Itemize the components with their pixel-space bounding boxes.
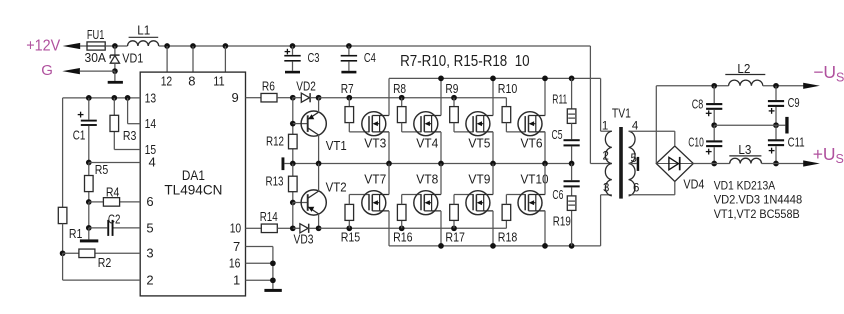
node mid/C8 xyxy=(711,122,717,128)
wire -Us rail xyxy=(656,85,728,87)
svg-text:VT9: VT9 xyxy=(468,173,490,187)
node gate line R15 xyxy=(346,225,352,231)
resistor R17 xyxy=(453,220,455,228)
wire VT2 base lead xyxy=(293,202,308,204)
capacitor C8 xyxy=(713,86,715,103)
wire pin4 corner down to VD4 top xyxy=(674,131,676,146)
svg-text:12: 12 xyxy=(161,73,173,88)
resistor R1 xyxy=(58,207,67,223)
wire pin 4 line xyxy=(89,162,140,164)
wire R6 to VD2 xyxy=(277,97,293,99)
node pin12 stub xyxy=(164,43,170,49)
op-amp IC DA1 TL494CN box xyxy=(140,72,245,296)
wire gate line lower row xyxy=(319,227,507,229)
node R1/R2/pin3 xyxy=(60,250,66,256)
capacitor C5 xyxy=(571,123,573,139)
node VT2 base / R13 xyxy=(290,200,296,206)
node VT1 base / R12 xyxy=(290,121,296,127)
ground below VD1 xyxy=(108,81,123,84)
wire middle bus xyxy=(284,163,571,165)
transistor VT7 (MOSFET) xyxy=(362,191,386,215)
wire VT7 source vertical to lower bus xyxy=(388,211,390,246)
svg-text:R8: R8 xyxy=(393,82,406,96)
wire gate line upper row xyxy=(319,97,507,99)
wire VT10 drain vertical to bus xyxy=(544,164,546,195)
resistor R18 xyxy=(505,220,507,228)
wire VT1 collector to bus xyxy=(318,135,320,164)
resistor R12 xyxy=(292,149,294,164)
svg-text:R12: R12 xyxy=(266,135,284,149)
wire pin 16 line xyxy=(246,262,273,264)
node bus/C5/C6 xyxy=(569,161,575,167)
wire R9 to gate of VT5 xyxy=(453,123,455,132)
wire R16 to gate of VT8 xyxy=(401,195,403,205)
svg-text:R14: R14 xyxy=(260,210,278,224)
node VD2 anode / VT1 base branch xyxy=(290,95,296,101)
wire drain line to TV1 pin 1 xyxy=(600,78,602,131)
wire VT8 source vertical to lower bus xyxy=(440,211,442,246)
wire pin6 corner up to VD4 bottom xyxy=(674,182,676,195)
node VD2 cathode / VT1 emitter xyxy=(316,95,322,101)
terminal arrow G xyxy=(62,68,80,74)
wire stub pin 11 xyxy=(224,46,226,72)
wire VT5 drain vertical xyxy=(492,78,494,115)
svg-text:R6: R6 xyxy=(262,79,275,93)
node gate line R17 xyxy=(451,225,457,231)
node bus column 2 xyxy=(438,161,444,167)
wire pin 10 line xyxy=(246,227,262,229)
wire VT6 source vertical xyxy=(544,132,546,164)
svg-text:2: 2 xyxy=(146,273,153,288)
svg-text:VT4: VT4 xyxy=(416,137,438,151)
svg-text:R19: R19 xyxy=(553,215,571,229)
wire TV1 pin 4 lead xyxy=(629,130,675,132)
svg-text:VD2.VD3 1N4448: VD2.VD3 1N4448 xyxy=(714,193,803,207)
svg-text:R5: R5 xyxy=(95,163,109,177)
wire VT2 emitter to pin10 line xyxy=(318,214,320,228)
svg-text:VT1,VT2 BC558B: VT1,VT2 BC558B xyxy=(714,207,800,221)
wire VT1 emitter to VD2 cathode xyxy=(318,98,320,113)
wire VT2 collector to bus xyxy=(318,164,320,192)
node pin13/pin14 branch xyxy=(125,95,131,101)
wire R17 to gate of VT9 xyxy=(453,195,455,205)
svg-text:2: 2 xyxy=(603,151,609,163)
ground bar at TV1 pin 5 xyxy=(637,157,640,171)
svg-text:C1: C1 xyxy=(73,129,86,143)
svg-text:+12V: +12V xyxy=(26,38,61,55)
resistor R19 xyxy=(571,210,573,246)
node R5/R4/pin6 xyxy=(86,199,92,205)
svg-text:16: 16 xyxy=(229,256,241,271)
svg-text:C3: C3 xyxy=(308,51,320,65)
svg-text:VT10: VT10 xyxy=(521,173,549,187)
wire VT1 base lead xyxy=(293,123,308,125)
capacitor C3 xyxy=(292,46,294,55)
svg-text:R1: R1 xyxy=(69,227,83,241)
node gate line R16 xyxy=(399,225,405,231)
svg-text:VT3: VT3 xyxy=(364,137,386,151)
node gate line R9 xyxy=(451,95,457,101)
svg-text:VD1 KD213A: VD1 KD213A xyxy=(714,178,776,192)
diode VD2 xyxy=(293,97,302,99)
capacitor C10 xyxy=(713,125,715,140)
bridge inner diode xyxy=(658,163,693,165)
svg-text:TV1: TV1 xyxy=(612,107,631,121)
wire VT9 source vertical to lower bus xyxy=(492,211,494,246)
diode VD3 xyxy=(293,227,300,229)
transformer secondary winding xyxy=(629,131,635,196)
svg-text:R11: R11 xyxy=(552,93,567,107)
transistor VT5 (MOSFET) xyxy=(466,112,490,136)
node -Us/C8 xyxy=(711,83,717,89)
wire TV1 pin 3 to lower bus xyxy=(601,194,612,196)
wire pin 9 line xyxy=(246,97,262,99)
node bus/R12 xyxy=(290,161,296,167)
svg-text:10: 10 xyxy=(230,221,242,236)
wire R3 to pin 15 xyxy=(114,149,140,151)
node drain/VT6 xyxy=(542,76,548,82)
node lower bus/VT9 xyxy=(490,243,496,249)
capacitor C11 xyxy=(775,125,777,139)
wire left chain down from pin13 line xyxy=(62,98,64,207)
svg-text:5: 5 xyxy=(146,220,153,235)
svg-text:1: 1 xyxy=(602,121,608,133)
svg-text:14: 14 xyxy=(145,116,157,131)
svg-text:VD3: VD3 xyxy=(294,232,314,246)
wire pin 1 line xyxy=(246,279,273,281)
node rail/C3 xyxy=(290,43,296,49)
resistor R14 xyxy=(261,224,277,233)
node +Us/C11 xyxy=(773,161,779,167)
node C2/ground xyxy=(86,225,92,231)
svg-text:13: 13 xyxy=(145,90,157,105)
svg-text:R4: R4 xyxy=(106,185,120,199)
svg-text:6: 6 xyxy=(633,182,639,194)
svg-text:R13: R13 xyxy=(266,175,284,189)
svg-text:VT1: VT1 xyxy=(326,139,347,153)
svg-text:VT7: VT7 xyxy=(364,173,386,187)
node VD3 anode / VT2 base branch xyxy=(290,225,296,231)
svg-text:1: 1 xyxy=(233,273,240,288)
resistor R7 xyxy=(348,98,350,107)
capacitor C2 xyxy=(89,227,108,229)
wire TV1 pin 5 lead xyxy=(629,163,637,165)
wire VT4 drain vertical xyxy=(440,78,442,115)
svg-text:11: 11 xyxy=(213,73,225,88)
svg-text:C4: C4 xyxy=(364,51,376,65)
wire C1 to pin4 node xyxy=(88,126,90,163)
node gate line R7 xyxy=(346,95,352,101)
wire VT2 base vertical to VD3 xyxy=(292,203,294,229)
svg-text:TL494CN: TL494CN xyxy=(164,182,222,198)
node drain/VT5 xyxy=(490,76,496,82)
ground below C3 xyxy=(285,71,300,74)
node bus column 1 xyxy=(386,161,392,167)
node lower bus/R19 xyxy=(569,243,575,249)
node pin1 join xyxy=(270,277,276,283)
resistor R5 xyxy=(88,163,90,176)
wire VT1 base vertical xyxy=(292,98,294,135)
wire +12V drop to TV1 pin 2 xyxy=(589,46,591,164)
node VD1/G line xyxy=(112,68,118,74)
resistor R13 xyxy=(292,164,294,177)
transistor VT4 (MOSFET) xyxy=(414,112,438,136)
wire branch to pin 14 xyxy=(127,98,129,124)
ground bar mid right xyxy=(785,117,788,134)
svg-text:R9: R9 xyxy=(445,82,458,96)
svg-text:G: G xyxy=(41,62,53,79)
node +Us/C10 xyxy=(711,161,717,167)
transistor VT2 xyxy=(301,190,326,215)
node pin11 stub xyxy=(223,43,229,49)
wire R18 to gate of VT10 xyxy=(505,195,507,205)
wire pin 7 line xyxy=(246,246,273,248)
svg-text:C5: C5 xyxy=(552,128,563,142)
node drain/VT4 xyxy=(438,76,444,82)
node pin4/C1/R5 xyxy=(86,160,92,166)
resistor R11 xyxy=(571,78,573,109)
svg-text:6: 6 xyxy=(146,194,153,209)
resistor R9 xyxy=(453,98,455,107)
wire G line xyxy=(80,70,115,72)
wire VD1 to ground xyxy=(114,71,116,81)
resistor R10 xyxy=(505,98,507,107)
svg-text:R17: R17 xyxy=(445,231,465,245)
svg-text:4: 4 xyxy=(149,155,156,170)
svg-text:3: 3 xyxy=(146,246,153,261)
zener diode VD1 xyxy=(114,46,116,55)
svg-text:C2: C2 xyxy=(108,212,121,226)
svg-text:9: 9 xyxy=(232,90,239,105)
capacitor C6 xyxy=(571,164,573,181)
wire VT6 drain vertical xyxy=(544,78,546,115)
svg-text:R2: R2 xyxy=(98,256,112,270)
ground bar left end of bus xyxy=(282,157,285,170)
wire +Us rail from VD4 xyxy=(693,163,729,165)
svg-text:C8: C8 xyxy=(692,98,704,112)
svg-text:R7: R7 xyxy=(341,82,354,96)
wire pin 13 line xyxy=(63,97,141,99)
wire R10 to gate of VT6 xyxy=(505,123,507,132)
wire VT10 source vertical to lower bus xyxy=(544,211,546,246)
wire mid ground line xyxy=(714,124,785,126)
wire R7 to gate of VT3 xyxy=(348,123,350,132)
terminal arrow -Us xyxy=(803,83,820,89)
svg-text:VD1: VD1 xyxy=(122,51,143,65)
ground below C4 xyxy=(341,71,356,74)
wire VT9 drain vertical to bus xyxy=(492,164,494,195)
node drain/R11 xyxy=(569,76,575,82)
svg-text:R3: R3 xyxy=(123,129,137,143)
svg-text:VT5: VT5 xyxy=(468,137,490,151)
wire VT4 source vertical xyxy=(440,132,442,164)
node rail/C4 xyxy=(346,43,352,49)
wire arrow to FU1 xyxy=(80,45,87,47)
svg-text:C9: C9 xyxy=(788,96,800,110)
capacitor C4 xyxy=(348,46,350,55)
node pin13/C1 xyxy=(86,95,92,101)
node -Us/C9 xyxy=(773,83,779,89)
wire FU1 to L1 xyxy=(105,45,127,47)
wire upper drain line xyxy=(389,77,601,79)
wire R8 to gate of VT4 xyxy=(401,123,403,132)
wire VT8 drain vertical to bus xyxy=(440,164,442,195)
svg-text:C10: C10 xyxy=(688,136,704,150)
svg-text:L1: L1 xyxy=(137,22,150,37)
resistor R6 xyxy=(261,93,277,102)
wire down to pin2 line xyxy=(62,253,64,280)
svg-text:L2: L2 xyxy=(737,61,750,76)
node bus column 3 xyxy=(490,161,496,167)
svg-text:VD4: VD4 xyxy=(683,178,704,192)
fuse FU1 xyxy=(87,42,105,50)
node rail/VD1 xyxy=(112,43,118,49)
node pin16 join xyxy=(270,260,276,266)
terminal arrow +12V xyxy=(63,43,81,49)
transistor VT6 (MOSFET) xyxy=(518,112,542,136)
node pin8 stub xyxy=(190,43,196,49)
transistor VT1 xyxy=(301,111,326,136)
svg-text:30A: 30A xyxy=(85,51,107,65)
svg-text:L3: L3 xyxy=(738,142,751,157)
wire lower bus xyxy=(389,245,601,247)
transistor VT9 (MOSFET) xyxy=(466,191,490,215)
svg-text:8: 8 xyxy=(188,73,195,88)
wire pins 7-16-1 vertical xyxy=(272,247,274,289)
svg-text:3: 3 xyxy=(603,182,609,194)
resistor R8 xyxy=(401,98,403,107)
wire VD4 left corner up to -Us rail xyxy=(655,86,657,164)
svg-text:VT6: VT6 xyxy=(521,137,543,151)
wire pin 2 line xyxy=(63,279,141,281)
svg-text:VT8: VT8 xyxy=(416,173,438,187)
resistor R2 xyxy=(63,252,79,254)
svg-text:C11: C11 xyxy=(788,135,805,149)
svg-text:FU1: FU1 xyxy=(87,28,105,42)
wire VT3 source vertical xyxy=(388,132,390,164)
svg-text:R10: R10 xyxy=(498,82,518,96)
wire R15 to gate of VT7 xyxy=(348,195,350,205)
svg-text:R16: R16 xyxy=(393,231,413,245)
svg-text:VD2: VD2 xyxy=(296,79,316,93)
node lower bus/VT8 xyxy=(438,243,444,249)
node pin13/R3 xyxy=(111,95,117,101)
resistor R3 xyxy=(113,98,115,115)
capacitor C9 xyxy=(775,86,777,100)
ground below pins 7-16-1 xyxy=(264,289,281,292)
node gate line R8 xyxy=(399,95,405,101)
transistor VT3 (MOSFET) xyxy=(362,112,386,136)
capacitor C1 xyxy=(81,120,97,122)
resistor R15 xyxy=(348,220,350,228)
wire VT5 source vertical xyxy=(492,132,494,164)
node lower bus/VT10 xyxy=(542,243,548,249)
wire L2 to -Us arrow xyxy=(763,85,805,87)
node mid/C9 xyxy=(773,122,779,128)
svg-text:R18: R18 xyxy=(498,231,518,245)
node VD3 cathode / VT2 emitter xyxy=(316,225,322,231)
ground below C2 node xyxy=(88,228,90,240)
terminal arrow +Us xyxy=(803,160,820,166)
node bus/VT1-VT2 xyxy=(316,161,322,167)
wire VT3 drain vertical xyxy=(388,78,390,115)
wire pin6 node down to C2 node xyxy=(88,202,90,228)
wire VT7 drain vertical to bus xyxy=(388,164,390,195)
resistor R16 xyxy=(401,220,403,228)
wire L3 to +Us arrow xyxy=(762,163,806,165)
resistor R4 xyxy=(89,201,104,203)
svg-text:R15: R15 xyxy=(341,231,361,245)
transformer core xyxy=(619,127,623,199)
bridge rectifier VD4 diamond xyxy=(656,146,693,182)
svg-text:7: 7 xyxy=(233,239,240,254)
transistor VT8 (MOSFET) xyxy=(414,191,438,215)
+12V rail wire xyxy=(159,45,591,47)
wire R1 to R2 node xyxy=(62,224,64,254)
svg-text:DA1: DA1 xyxy=(182,167,205,183)
wire stub pin 12 xyxy=(166,46,168,72)
wire TV1 pin 6 lead xyxy=(629,194,675,196)
svg-text:VT2: VT2 xyxy=(326,181,347,195)
svg-text:C6: C6 xyxy=(552,188,563,202)
node bus column 4 xyxy=(542,161,548,167)
wire R14 to VD3 xyxy=(277,227,292,229)
svg-text:R7-R10, R15-R18 10: R7-R10, R15-R18 10 xyxy=(400,53,530,70)
wire C1 top lead xyxy=(88,98,90,120)
wire stub pin 8 xyxy=(192,46,194,72)
transistor VT10 (MOSFET) xyxy=(518,191,542,215)
